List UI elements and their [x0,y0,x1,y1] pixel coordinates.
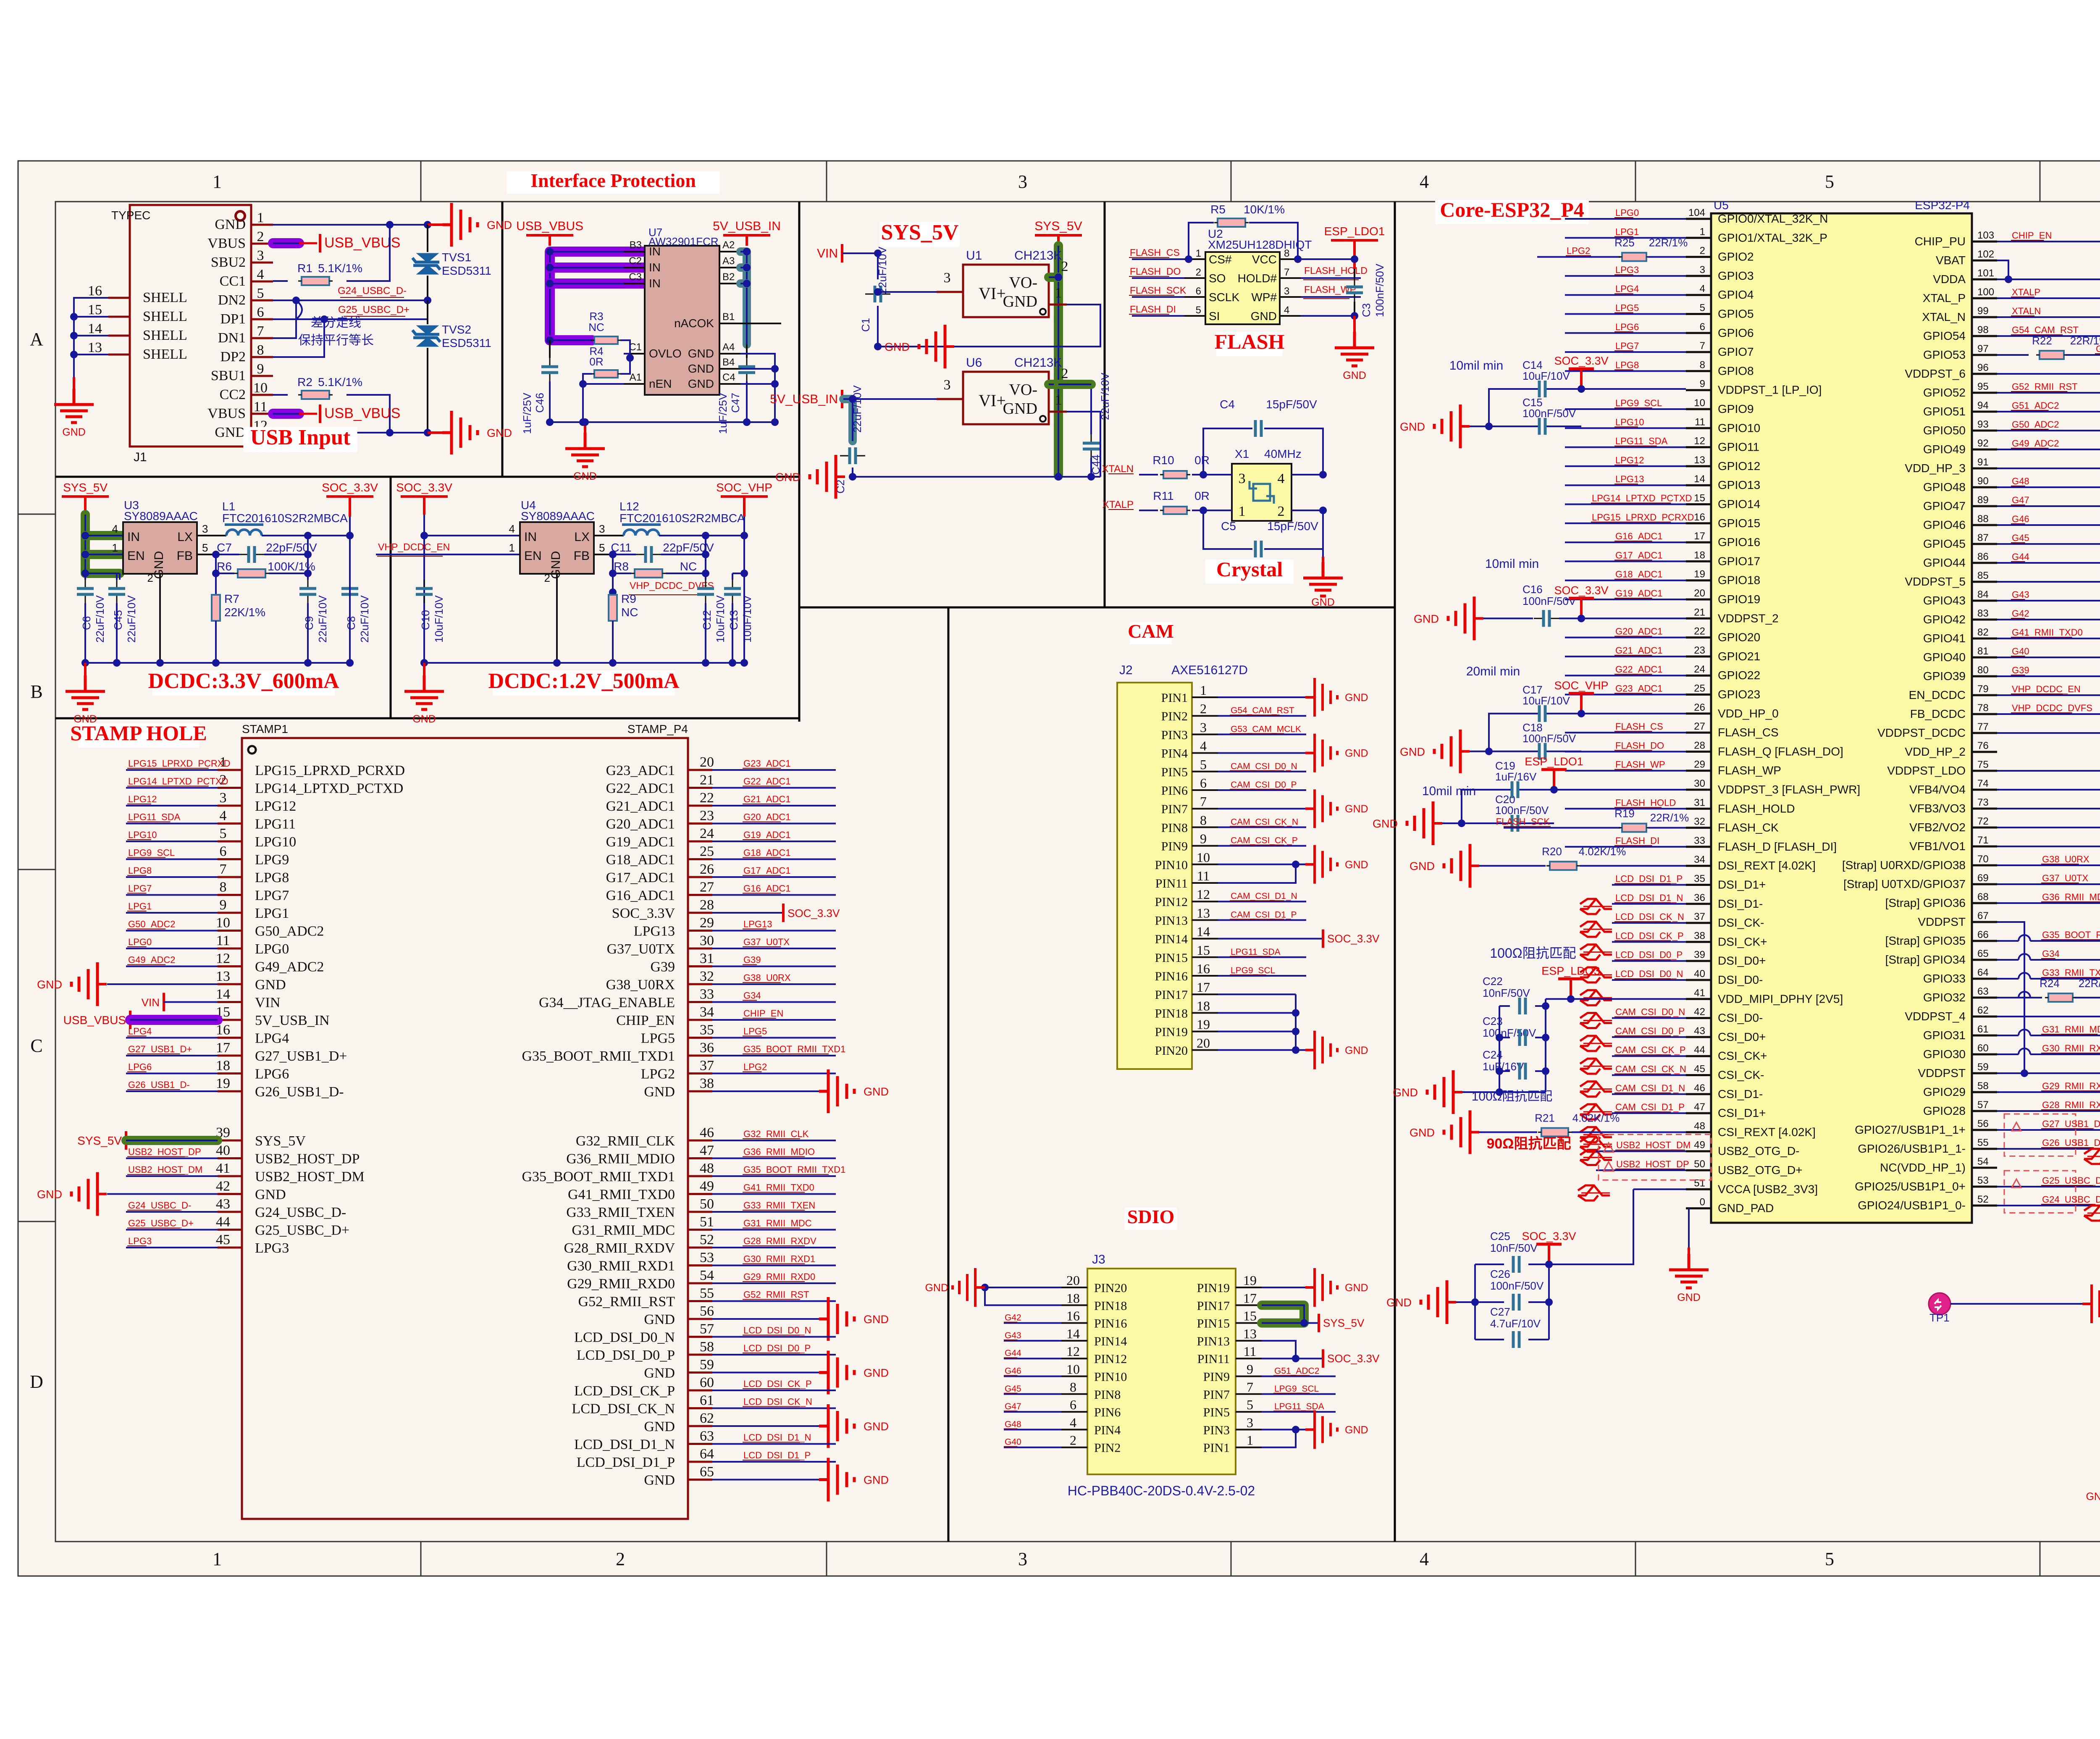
wire [1997,1035,2100,1036]
wire [688,1140,712,1142]
wire [251,243,273,245]
svg-text:G26_USB1_D-: G26_USB1_D- [255,1084,344,1100]
svg-text:FLASH_DI: FLASH_DI [1130,304,1176,315]
wire [688,1443,712,1445]
svg-text:GPIO52: GPIO52 [1923,386,1966,399]
svg-text:G47: G47 [1005,1402,1021,1411]
wire [1004,1411,1061,1413]
svg-text:7: 7 [1700,340,1705,352]
wire [1997,694,2100,696]
wire [732,573,744,574]
svg-text:G43: G43 [1005,1331,1021,1340]
svg-text:VO-: VO- [1009,274,1037,292]
svg-text:SYS_5V: SYS_5V [63,481,108,494]
junction [1319,507,1327,514]
wire [743,929,766,930]
wire [251,375,273,377]
wire (thick trace) [1049,273,1058,282]
svg-text:GPIO54: GPIO54 [1923,329,1966,342]
ground [565,433,605,467]
wire [127,1228,180,1229]
wire (thick trace) [273,238,299,248]
wire [218,1001,242,1003]
svg-text:GPIO50: GPIO50 [1923,424,1966,437]
svg-text:GND: GND [1414,612,1439,625]
svg-text:1uF/16V: 1uF/16V [1495,770,1537,783]
wire [1218,752,1305,754]
svg-text:4: 4 [1278,471,1285,486]
wire [1686,884,1711,886]
wire [262,535,350,536]
junction [849,473,856,481]
wire [712,1090,819,1092]
junction [304,570,312,577]
junction [212,570,220,577]
wire [719,323,740,324]
wire [1686,1112,1711,1114]
svg-text:26: 26 [1694,702,1705,713]
svg-text:104: 104 [1688,207,1705,218]
differential pair mark [1580,945,1612,960]
wire [712,894,836,896]
resistor [609,595,617,621]
wire [1581,609,1582,628]
svg-text:PIN14: PIN14 [1094,1334,1127,1348]
svg-text:LPG2: LPG2 [641,1067,675,1082]
svg-text:32: 32 [1694,816,1705,827]
svg-text:DSI_D1-: DSI_D1- [1718,897,1763,910]
svg-text:A4: A4 [722,341,735,353]
svg-text:GPIO33: GPIO33 [1923,972,1966,985]
wire [1686,275,1711,277]
svg-text:PIN3: PIN3 [1161,728,1188,742]
junction [626,354,634,362]
svg-text:GPIO22: GPIO22 [1718,669,1760,682]
wire [1972,1091,1997,1093]
inductor [624,530,659,536]
power port ESP_LDO3 [1570,979,1572,999]
svg-text:52: 52 [1977,1194,1989,1205]
svg-text:GND: GND [864,1474,889,1487]
svg-text:USB2_HOST_DM: USB2_HOST_DM [255,1169,365,1185]
wire [1997,1129,2100,1131]
wire [743,1388,800,1389]
svg-text:93: 93 [1977,419,1989,430]
wire [1218,919,1306,921]
capacitor [1534,618,1543,619]
wire [688,1264,712,1266]
resistor [1541,1128,1568,1136]
svg-text:G32_RMII_CLK: G32_RMII_CLK [576,1133,675,1149]
svg-text:5: 5 [599,541,605,554]
TVS diode [412,253,440,274]
wire [719,368,740,370]
svg-text:G16_ADC1: G16_ADC1 [1615,531,1663,541]
power port SOC_VHP [1580,693,1583,714]
svg-text:45: 45 [216,1232,230,1248]
differential pair mark [1580,1036,1612,1051]
wire [1203,510,1252,549]
wire [1997,1148,2100,1150]
wire [1535,1037,1546,1038]
wire [1997,713,2100,715]
wire [1301,315,1354,317]
wire [1475,1301,1504,1303]
svg-text:LPG5: LPG5 [1615,303,1639,313]
svg-text:B3: B3 [630,239,642,251]
wire [666,573,706,574]
svg-text:U1: U1 [966,249,982,263]
wire [1565,504,1686,505]
junction [1542,1034,1549,1041]
svg-text:LCD_DSI_D1_N: LCD_DSI_D1_N [743,1432,811,1443]
wire [423,573,425,580]
wire [1997,373,2100,375]
svg-text:R10: R10 [1152,454,1174,467]
svg-text:G17_ADC1: G17_ADC1 [1615,550,1663,560]
svg-text:G49_ADC2: G49_ADC2 [255,959,324,975]
wire [1972,675,1997,678]
ground [1315,1410,1337,1449]
wire [1997,1091,2100,1093]
svg-text:5.1K/1%: 5.1K/1% [318,376,362,389]
svg-text:G21_ADC1: G21_ADC1 [606,799,675,814]
svg-text:GPIO9: GPIO9 [1718,402,1754,415]
wire (thick trace) [273,409,299,419]
svg-text:A: A [30,329,43,349]
wire [1565,313,1686,315]
svg-text:GPIO42: GPIO42 [1923,613,1966,626]
junction [346,659,354,667]
wire [1612,960,1686,962]
wire [1262,1429,1296,1447]
svg-text:63: 63 [1977,986,1989,997]
svg-text:8: 8 [1070,1379,1076,1395]
wire [743,1138,800,1139]
svg-text:58: 58 [1977,1080,1989,1092]
svg-text:24: 24 [700,826,714,841]
svg-text:XM25UH128DHIQT: XM25UH128DHIQT [1208,238,1312,251]
svg-text:G53_CAM_MCLK: G53_CAM_MCLK [1231,724,1301,734]
svg-text:G48: G48 [2012,476,2029,486]
svg-text:7: 7 [1200,794,1207,809]
power port USB_VBUS [319,234,321,252]
svg-text:LPG15_LPRXD_PCRXD: LPG15_LPRXD_PCRXD [255,763,405,778]
wire [84,663,87,675]
svg-text:LCD_DSI_D0_P: LCD_DSI_D0_P [577,1348,675,1363]
wire [1004,1340,1017,1340]
svg-text:L12: L12 [619,500,639,513]
wire [1997,543,2100,545]
wire [1972,505,1997,507]
svg-text:75: 75 [1977,759,1989,770]
wire [1230,956,1270,957]
wire [127,875,147,876]
svg-text:USB2_HOST_DP: USB2_HOST_DP [255,1151,360,1167]
svg-text:J1: J1 [134,450,147,464]
wire [1612,1093,1686,1095]
wire [740,354,775,422]
ground [1335,332,1374,366]
wire [1612,1017,1686,1019]
resistor [238,569,265,578]
wire [1489,751,1539,752]
wire [1305,1286,1315,1289]
wire [1218,696,1305,698]
svg-text:ESP32-P4: ESP32-P4 [1915,199,1970,212]
junction [849,395,856,403]
wire [743,1053,829,1054]
wire [712,1037,836,1039]
wire [273,280,288,282]
svg-text:G54_CAM_RST: G54_CAM_RST [2012,325,2079,335]
svg-text:5: 5 [202,541,208,554]
svg-text:LCD_DSI_D0_N: LCD_DSI_D0_N [574,1330,675,1345]
svg-text:6: 6 [1070,1397,1076,1412]
wire [1129,257,1169,258]
wire [712,1354,836,1355]
svg-text:35: 35 [1694,873,1705,885]
wire [1565,656,1686,657]
wire [1686,541,1711,544]
svg-text:1: 1 [1196,248,1201,259]
svg-text:GPIO16: GPIO16 [1718,536,1760,549]
wire [712,787,836,789]
wire [1686,1150,1711,1152]
wire [1057,235,1060,246]
wire [1192,901,1218,902]
junction [1496,1067,1503,1075]
svg-text:USB_VBUS: USB_VBUS [63,1014,126,1027]
svg-text:CAM_CSI_D1_P: CAM_CSI_D1_P [1615,1102,1685,1112]
wire [1972,846,1997,848]
svg-text:LPG10: LPG10 [255,834,296,850]
wire [1230,975,1266,975]
wire [1132,296,1184,298]
svg-text:LPG11_SDA: LPG11_SDA [1274,1402,1324,1411]
wire [1353,240,1356,269]
wire [1972,997,1997,999]
wire [712,948,836,949]
wire [1686,522,1711,524]
svg-text:GND: GND [37,1188,62,1201]
svg-text:PIN9: PIN9 [1161,840,1188,854]
wire [1686,370,1711,372]
svg-text:LPG0: LPG0 [255,941,289,957]
wire [877,306,879,347]
svg-text:PIN8: PIN8 [1161,821,1188,835]
svg-text:46: 46 [700,1125,714,1140]
wire [116,573,118,580]
wire [251,394,273,396]
wire [1686,712,1711,715]
wire [119,573,121,580]
wire [428,431,443,434]
wire [1273,1411,1314,1411]
wire [1249,223,1298,259]
wire [740,383,775,385]
svg-text:10nF/50V: 10nF/50V [1483,987,1530,999]
svg-text:G43: G43 [2012,589,2029,600]
wire [299,413,317,415]
wire [712,1425,819,1427]
wire [1635,1542,1636,1576]
differential pair mark [1580,1104,1612,1119]
wire [1004,1393,1017,1394]
wire [1997,657,2100,658]
svg-text:LPG11_SDA: LPG11_SDA [1231,947,1281,957]
junction [420,532,428,539]
junction [874,343,882,350]
svg-text:3: 3 [1247,1415,1253,1430]
svg-text:13: 13 [1243,1326,1257,1341]
ground [1444,1110,1470,1154]
svg-text:C13: C13 [727,610,740,630]
svg-text:X1: X1 [1235,447,1249,460]
svg-text:G18_ADC1: G18_ADC1 [1615,569,1663,580]
wire [712,1211,836,1213]
svg-text:DSI_D0+: DSI_D0+ [1718,954,1766,967]
power port VIN [841,244,843,263]
wire [1061,1340,1087,1342]
differential pair mark [1580,990,1612,1005]
power port SOC_3.3V [1548,1244,1550,1264]
wire [127,768,209,769]
capacitor [705,580,706,588]
svg-text:G49_ADC2: G49_ADC2 [2012,438,2059,449]
svg-text:SHELL: SHELL [143,290,187,305]
svg-text:J3: J3 [1092,1253,1105,1266]
svg-text:VHP_DCDC_EN: VHP_DCDC_EN [2012,684,2081,694]
svg-text:30: 30 [700,933,714,948]
wire [688,1461,712,1463]
svg-text:PIN11: PIN11 [1197,1352,1230,1366]
svg-text:TYPEC: TYPEC [111,209,150,222]
junction [702,551,709,558]
ground [819,1297,854,1341]
resistor [1550,862,1577,870]
wire [712,1390,836,1391]
svg-text:[Strap] U0TXD/GPIO37: [Strap] U0TXD/GPIO37 [1843,877,1966,891]
wire [1354,302,1355,316]
wire [1997,449,2100,450]
svg-text:G25_USBC_D+: G25_USBC_D+ [128,1218,194,1229]
ground [1434,405,1460,448]
svg-text:FLASH_DO: FLASH_DO [1130,266,1181,277]
capacitor [1512,1331,1515,1348]
wire [1997,808,2100,809]
svg-text:G31_RMII_MDC: G31_RMII_MDC [2042,1024,2100,1035]
wire [743,1210,805,1211]
ground [1315,845,1337,884]
wire [126,1055,218,1056]
svg-text:51: 51 [1694,1177,1705,1189]
wire [251,356,273,358]
wire [661,554,706,555]
wire [1596,1169,1686,1171]
svg-text:SY8089AAAC: SY8089AAAC [124,510,198,523]
svg-text:SO: SO [1209,272,1226,285]
wire [1139,510,1158,511]
wire [712,966,836,967]
wire [1230,733,1284,734]
svg-text:R1: R1 [297,262,312,275]
svg-text:10: 10 [1197,850,1210,865]
svg-text:50: 50 [1694,1158,1705,1170]
svg-text:G39: G39 [2012,665,2029,675]
svg-text:10mil min: 10mil min [1422,784,1476,798]
wire [1686,579,1711,581]
wire [878,291,937,293]
svg-text:GPIO7: GPIO7 [1718,345,1754,358]
svg-text:GND: GND [487,427,512,439]
wire [215,573,217,595]
svg-text:G35_BOOT_RMII_TXD1: G35_BOOT_RMII_TXD1 [522,1048,675,1064]
svg-text:FLASH_CS: FLASH_CS [1130,247,1180,258]
wire (thick trace) [550,335,592,345]
wire [251,413,273,415]
svg-text:A1: A1 [630,372,642,383]
svg-text:19: 19 [1243,1273,1257,1288]
svg-text:54: 54 [1977,1156,1989,1167]
wire [1688,1248,1690,1256]
wire [1972,581,1997,583]
wire [1049,304,1067,306]
svg-text:PIN7: PIN7 [1203,1388,1230,1402]
svg-text:18: 18 [1197,998,1210,1013]
ground [819,1458,854,1502]
wire [307,573,309,580]
wire [1184,296,1205,298]
wire [1972,1205,1997,1207]
svg-text:1: 1 [1055,392,1062,408]
wire [1004,1446,1017,1447]
junction [1578,710,1585,717]
wire [688,930,712,932]
wire [584,422,586,433]
wire [624,251,645,252]
svg-text:79: 79 [1977,683,1989,695]
svg-text:LPG9: LPG9 [255,852,289,868]
wire [18,869,55,870]
wire [2019,977,2030,980]
wire [853,398,937,400]
svg-text:G24_USBC_D-: G24_USBC_D- [338,285,407,297]
wire [740,368,775,370]
wire [1997,581,2100,583]
svg-text:USB2_OTG_D-: USB2_OTG_D- [1718,1145,1800,1158]
svg-text:68: 68 [1977,891,1989,903]
wire [307,536,309,573]
wire [712,1265,836,1266]
wire [712,983,836,985]
svg-text:SI: SI [1209,310,1220,323]
svg-text:Crystal: Crystal [1216,557,1283,581]
wire [218,1019,242,1021]
svg-text:C2: C2 [629,255,642,267]
wire [1686,827,1711,829]
svg-text:G35_BOOT_RMII_TXD1: G35_BOOT_RMII_TXD1 [743,1164,845,1175]
svg-text:1uF/25V: 1uF/25V [717,392,729,434]
wire [1304,1322,1319,1324]
svg-text:VDDPST_5: VDDPST_5 [1905,575,1966,588]
svg-text:27: 27 [700,880,714,895]
svg-text:44: 44 [1694,1044,1705,1056]
resistor [2040,351,2064,359]
wire [1305,807,1315,810]
svg-text:C3: C3 [629,271,642,283]
wire [1997,732,2100,734]
